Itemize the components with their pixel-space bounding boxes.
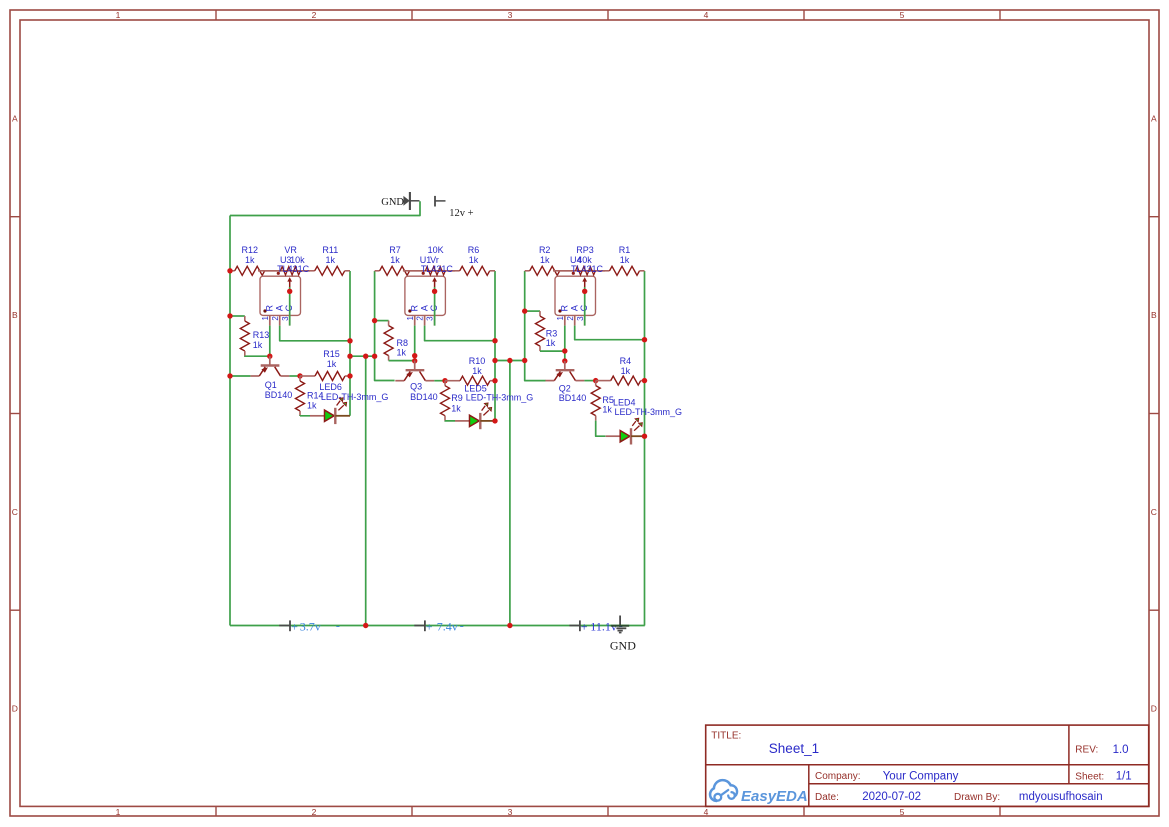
wire from GND flag to left rail [230,201,420,215]
svg-text:-: - [460,618,464,632]
svg-text:TL431C: TL431C [571,264,604,274]
svg-text:2: 2 [416,316,425,321]
svg-text:12v +: 12v + [449,208,473,219]
potentiometer RP3 [553,245,605,287]
wire mid column 1 to battery rail [365,356,367,625]
svg-text:Date:: Date: [815,792,839,803]
svg-text:1k: 1k [469,255,479,265]
wire emitter to rail [230,375,250,377]
svg-text:3: 3 [576,316,585,321]
node rail junction R13 [227,313,232,318]
node base junction [412,353,417,358]
svg-text:R11: R11 [322,245,338,255]
sheet row [1075,771,1131,783]
transistor Q1 BD140 PNP [250,356,292,400]
svg-text:R10: R10 [469,356,486,366]
svg-text:D: D [12,703,18,713]
resistor R4 [596,356,645,385]
svg-text:1: 1 [116,807,121,817]
svg-text:A: A [1151,113,1157,123]
svg-text:2: 2 [312,10,317,20]
battery net flag 7.4v [414,618,463,633]
svg-text:1k: 1k [602,405,612,415]
svg-text:1: 1 [261,316,270,321]
rev text [1075,744,1128,756]
svg-text:TL431C: TL431C [421,264,454,274]
resistor R3 [536,311,558,351]
resistor R6 [445,245,495,275]
svg-text:1k: 1k [327,359,337,369]
svg-text:Q1: Q1 [265,380,277,390]
node wiper junction [287,289,292,294]
op-amp U1 TL431C regulator [405,276,446,325]
wire TL431 ref pin1 down to base [269,326,271,357]
svg-text:2: 2 [566,316,575,321]
svg-text:GND: GND [610,639,636,653]
wire interconnect block1-block2 [350,355,375,357]
svg-text:VR: VR [284,245,297,255]
LED LED6 LED-TH-3mm_G [310,382,388,424]
wire rail to R13 [230,315,245,317]
svg-text:R9: R9 [451,393,463,403]
svg-text:R7: R7 [389,245,401,255]
transistor Q2 BD140 PNP [545,361,586,403]
svg-text:Sheet:: Sheet: [1075,771,1104,782]
svg-text:GND: GND [381,197,404,208]
svg-text:R1: R1 [619,245,631,255]
node base junction [267,354,272,359]
svg-text:2: 2 [312,807,317,817]
wire TL431 ref pin1 down to base [564,326,566,361]
svg-text:2020-07-02: 2020-07-02 [862,791,921,803]
node base junction [562,348,567,353]
node R10 right junction [492,378,497,383]
node battery rail junction 2 [507,623,512,628]
svg-text:D: D [1151,703,1157,713]
svg-text:U3: U3 [280,255,292,265]
svg-text:1k: 1k [397,347,407,357]
resistor R14 [296,376,324,416]
resistor R5 [591,381,614,421]
wire right column block1 [349,271,351,416]
node rail junction R3 [522,308,527,313]
svg-text:TITLE:: TITLE: [711,730,741,741]
wire rail block2 (3.7v) [375,271,395,381]
svg-text:Company:: Company: [815,771,861,782]
svg-text:BD140: BD140 [410,392,438,402]
wire R9 to LED5 [445,420,455,422]
svg-text:5: 5 [900,10,905,20]
node base junction [562,358,567,363]
svg-text:R15: R15 [323,349,340,359]
company row [815,771,959,783]
LED LED5 LED-TH-3mm_G [455,383,533,429]
potentiometer 10K [403,245,455,287]
svg-text:1k: 1k [472,366,482,376]
svg-text:R4: R4 [620,356,632,366]
transistor Q3 BD140 PNP [395,361,437,403]
svg-text:EasyEDA: EasyEDA [741,788,808,805]
svg-text:Q3: Q3 [410,382,422,392]
resistor R1 [596,245,645,275]
svg-text:Drawn By:: Drawn By: [954,792,1000,803]
wire bottom battery rail [230,625,645,627]
resistor R12 [230,245,280,275]
svg-text:RP3: RP3 [576,245,594,255]
svg-text:R: R [560,305,570,312]
svg-text:3: 3 [426,316,435,321]
svg-text:+: + [581,619,588,633]
wire collector to R junction [289,375,300,377]
wire TL431 anode pin2 to right column [280,326,350,341]
svg-text:3: 3 [281,316,290,321]
svg-text:3.7v: 3.7v [300,619,321,633]
battery net flag 11.1v [569,618,622,633]
svg-text:+: + [291,619,298,633]
svg-text:1.0: 1.0 [1113,744,1129,756]
svg-text:1: 1 [116,10,121,20]
node battery rail junction 1 [363,623,368,628]
svg-text:4: 4 [704,10,709,20]
svg-text:1k: 1k [546,338,556,348]
svg-text:1k: 1k [253,340,263,350]
node wiper junction [432,289,437,294]
svg-text:A: A [275,305,285,311]
wire left rail (0V) [229,216,231,626]
wire R8 bottom to base junction [389,360,415,362]
wire pot wiper to TL431 cathode pin 3 [584,287,586,326]
svg-text:R3: R3 [546,328,558,338]
svg-text:1k: 1k [307,401,317,411]
wire TL431 ref pin1 down to base [414,326,416,361]
svg-text:2: 2 [271,316,280,321]
svg-text:3: 3 [508,10,513,20]
title text TITLE: Sheet_1 [711,730,819,755]
svg-text:U1: U1 [420,255,432,265]
svg-text:1k: 1k [540,255,550,265]
wire collector to R junction [584,380,595,382]
node LED cathode junction [642,434,647,439]
op-amp U4 TL431C regulator [555,276,596,325]
svg-text:1k: 1k [621,366,631,376]
svg-text:1k: 1k [451,404,461,414]
node collector junction [297,373,302,378]
svg-text:TL431C: TL431C [277,264,310,274]
wire rail to R8 [375,320,389,322]
svg-text:1: 1 [406,316,415,321]
node base junction [412,358,417,363]
wire TL431 anode pin2 to right column [425,326,495,341]
svg-text:R: R [265,305,275,312]
EasyEDA logo [710,780,808,805]
wire rail to R3 [525,310,540,312]
svg-text:3: 3 [508,807,513,817]
svg-text:-: - [336,618,340,632]
wire R14 to LED6 [300,415,310,417]
wire collector to R junction [434,380,445,382]
node anode wire junction [492,338,497,343]
resistor R15 [300,349,350,381]
svg-text:U4: U4 [570,255,582,265]
svg-text:R2: R2 [539,245,551,255]
wire right column block3 (11.1v) [644,271,646,626]
title block [706,725,1149,806]
wire R13 bottom to base junction [245,355,270,357]
wire right column block2 [494,271,496,421]
svg-text:LED-TH-3mm_G: LED-TH-3mm_G [321,392,389,402]
svg-text:LED-TH-3mm_G: LED-TH-3mm_G [466,393,534,403]
LED LED4 LED-TH-3mm_G [606,398,682,445]
svg-text:C: C [12,507,18,517]
svg-text:LED6: LED6 [319,382,342,392]
resistor R11 [301,245,351,275]
svg-text:C: C [1151,507,1157,517]
resistor R8 [384,321,408,361]
node anode wire junction [347,338,352,343]
svg-text:1k: 1k [245,255,255,265]
svg-text:R13: R13 [253,330,270,340]
svg-text:BD140: BD140 [559,393,587,403]
op-amp U3 TL431C regulator [260,276,301,325]
wire pot wiper to TL431 cathode pin 3 [289,287,291,326]
svg-text:R: R [410,305,420,312]
date row [815,791,1103,803]
svg-text:R6: R6 [468,245,480,255]
node LED cathode junction [492,418,497,423]
svg-text:7.4v: 7.4v [437,619,458,633]
wire pot wiper to TL431 cathode pin 3 [434,287,436,326]
svg-text:Your Company: Your Company [883,771,959,783]
resistor R9 [441,381,463,421]
node interconnect junctions block1 [347,354,352,359]
svg-text:A: A [570,305,580,311]
node anode wire junction [642,337,647,342]
ground flag GND (top) [381,192,419,210]
svg-text:R12: R12 [242,245,259,255]
svg-text:4: 4 [704,807,709,817]
node R4 right junction [642,378,647,383]
svg-text:10K: 10K [428,245,444,255]
wire R5 to LED4 [596,421,606,437]
svg-text:1k: 1k [390,255,400,265]
potentiometer VR [258,245,310,287]
svg-text:Sheet_1: Sheet_1 [769,741,819,756]
svg-text:1/1: 1/1 [1116,771,1132,783]
wire TL431 anode pin2 to right column [575,326,645,340]
wire rail block3 (7.4v) [525,271,546,381]
wire mid column 2 to battery rail [509,361,511,626]
svg-text:REV:: REV: [1075,744,1098,755]
svg-text:1k: 1k [326,255,336,265]
net flag 12v + [435,196,474,219]
node rail junction R8 [372,318,377,323]
node collector junction [593,378,598,383]
node collector junction [442,378,447,383]
node emitter rail junction [227,373,232,378]
resistor R13 [240,316,269,356]
svg-text:1k: 1k [620,255,630,265]
wire interconnect block2-block3 [495,360,525,362]
svg-text:mdyousufhosain: mdyousufhosain [1019,791,1103,803]
svg-text:BD140: BD140 [265,390,293,400]
resistor R7 [375,245,425,275]
node rail junction top [227,268,232,273]
resistor R2 [525,245,575,275]
svg-text:LED-TH-3mm_G: LED-TH-3mm_G [615,407,683,417]
svg-text:1: 1 [556,316,565,321]
node interconnect junctions block2 [492,358,497,363]
svg-text:B: B [1151,310,1157,320]
svg-text:A: A [419,305,429,311]
svg-text:B: B [12,310,18,320]
wire R3 bottom to base junction [540,350,565,352]
node R15 right junction [347,373,352,378]
resistor R10 [445,356,495,385]
svg-text:+: + [426,619,433,633]
battery net flag 3.7v [279,618,340,633]
svg-text:5: 5 [900,807,905,817]
svg-text:A: A [12,113,18,123]
ground GND (bottom) [610,616,636,653]
svg-text:Q2: Q2 [559,383,571,393]
node wiper junction [582,289,587,294]
